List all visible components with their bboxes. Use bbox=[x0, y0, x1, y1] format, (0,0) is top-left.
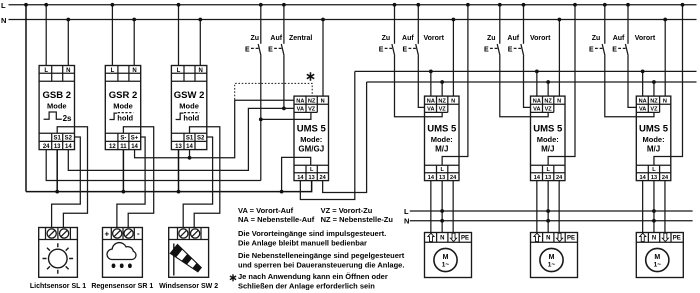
switch group U4 labels bbox=[592, 35, 656, 42]
GSB 2 sensor terminal labels bbox=[54, 136, 73, 142]
UMS 5 U1 mode label bbox=[298, 135, 324, 154]
svg-text:L: L bbox=[44, 68, 48, 74]
svg-text:M/J: M/J bbox=[435, 144, 448, 153]
junction N motor line / motor N U3 bbox=[546, 219, 550, 223]
wire GSR2 pin11 drop bbox=[122, 150, 124, 192]
wire GSB2 pin24 to Zu Zentral line bbox=[46, 150, 261, 181]
shutter control unit UMS 5 U3 outline bbox=[531, 96, 566, 181]
svg-text:Mode:: Mode: bbox=[431, 135, 453, 144]
UMS 5 U3 pin labels 14 13 24 bbox=[534, 175, 563, 181]
svg-text:S1: S1 bbox=[54, 136, 62, 142]
note asterisk bbox=[230, 272, 388, 290]
wire NA bus drop to U4 bbox=[642, 71, 644, 96]
svg-text:14: 14 bbox=[640, 175, 647, 181]
svg-text:14: 14 bbox=[131, 144, 138, 150]
svg-text:M: M bbox=[443, 254, 449, 261]
svg-text:N: N bbox=[440, 236, 444, 242]
svg-text:E: E bbox=[245, 46, 250, 53]
junction NA bus / U4 bbox=[641, 70, 645, 74]
motor M2 terminal N label bbox=[546, 236, 550, 242]
svg-text:hold: hold bbox=[183, 113, 199, 122]
sensor relay GSW 2 outline bbox=[171, 66, 206, 150]
wind sensor SW2 screw terminals bbox=[179, 229, 200, 238]
svg-text:1~: 1~ bbox=[548, 262, 556, 269]
wire L motor line bbox=[410, 210, 693, 212]
svg-text:N: N bbox=[652, 236, 656, 242]
svg-text:NA: NA bbox=[427, 98, 435, 104]
svg-text:NA: NA bbox=[533, 98, 541, 104]
junction NA bus / U3 bbox=[535, 70, 539, 74]
svg-text:Auf: Auf bbox=[270, 35, 282, 42]
junction N bus / N feed U2 bbox=[452, 18, 456, 22]
svg-text:Windsensor SW 2: Windsensor SW 2 bbox=[159, 283, 218, 290]
wire Zu U4 to VZ input bbox=[605, 56, 654, 117]
junction NA bus / U2 bbox=[429, 70, 433, 74]
svg-text:L: L bbox=[652, 167, 656, 173]
wire light sensor to GSB2 S1 bbox=[57, 127, 87, 228]
wire NZ bus drop to U4 bbox=[653, 82, 655, 96]
svg-text:Mode:: Mode: bbox=[643, 135, 665, 144]
junction L bus / GSW2 L bbox=[177, 3, 181, 7]
svg-text:24: 24 bbox=[556, 175, 563, 181]
GSW 2 terminal labels L N bbox=[177, 68, 203, 74]
wire L bus bbox=[9, 4, 697, 6]
svg-text:Mode:: Mode: bbox=[300, 135, 322, 144]
UMS 5 U4 pin labels 14 13 24 bbox=[640, 175, 669, 181]
svg-text:GM/GJ: GM/GJ bbox=[298, 144, 324, 153]
svg-text:14: 14 bbox=[428, 175, 435, 181]
GSW 2 Mode label bbox=[179, 102, 199, 111]
wind sensor SW2 windsock icon bbox=[170, 244, 203, 276]
svg-text:Auf: Auf bbox=[613, 35, 625, 42]
sensor relay GSR 2 outline bbox=[105, 66, 140, 150]
wire Zu Zentral upper bbox=[260, 5, 262, 44]
UMS 5 U1 pin labels NA NZ N bbox=[296, 98, 324, 104]
junction L common / GSR2 pin11 bbox=[122, 190, 126, 194]
svg-text:11: 11 bbox=[120, 144, 127, 150]
motor M1 symbol M 1~ bbox=[434, 248, 457, 271]
shutter control unit UMS 5 U1 outline bbox=[294, 96, 329, 181]
svg-text:NZ: NZ bbox=[308, 98, 316, 104]
wire Auf U2 upper bbox=[417, 5, 419, 44]
wire NA bus drop to U3 bbox=[536, 71, 538, 96]
junction L bus / left riser bbox=[24, 3, 28, 7]
UMS 5 U2 mode label bbox=[431, 135, 453, 154]
junction NZ bus / U3 bbox=[546, 80, 550, 84]
wire Zu U2 to VZ input bbox=[395, 56, 443, 117]
svg-text:14: 14 bbox=[186, 144, 193, 150]
svg-text:UMS 5: UMS 5 bbox=[297, 124, 327, 135]
motor M2 box bbox=[531, 233, 578, 278]
junction NA line / GSW2 pin14 bbox=[188, 156, 192, 160]
svg-text:S-: S- bbox=[120, 136, 126, 142]
junction N motor line / motor N U4 bbox=[652, 219, 656, 223]
wire GSB2 N supply bbox=[67, 20, 69, 66]
svg-text:N: N bbox=[663, 98, 667, 104]
wire N feed Zentral bbox=[322, 20, 324, 97]
wire N bus bbox=[9, 19, 697, 21]
rain sensor SR1 label bbox=[91, 283, 153, 290]
motor M1 terminal PE label bbox=[461, 236, 469, 242]
wire Zu U3 upper bbox=[499, 5, 501, 44]
net N motor line label bbox=[404, 217, 409, 226]
svg-text:13: 13 bbox=[545, 175, 551, 181]
GSW 2 mode icon hold bbox=[176, 113, 200, 123]
svg-text:NZ: NZ bbox=[438, 98, 446, 104]
svg-text:24: 24 bbox=[320, 175, 327, 181]
wire Auf U4 upper bbox=[627, 5, 629, 44]
light sensor SL1 label bbox=[30, 283, 86, 290]
pushbutton Auf Zentral contact bbox=[268, 44, 284, 56]
wire GSW2 pin14 drop to NA line bbox=[189, 150, 191, 158]
wire NA bus bbox=[355, 70, 697, 72]
motor M1 terminal N label bbox=[440, 236, 444, 242]
wire U1 pin14 to NA bus riser bbox=[300, 71, 354, 199]
wire N feed U4 bbox=[664, 20, 666, 97]
wire NZ bus bbox=[367, 81, 697, 83]
UMS 5 U1 pin labels VA VZ bbox=[297, 107, 316, 113]
svg-text:Je nach Anwendung kann ein Öff: Je nach Anwendung kann ein Öffnen oder bbox=[238, 272, 388, 281]
UMS 5 U4 pin label L bbox=[652, 167, 656, 173]
wire rain sensor to GSR2 S+ bbox=[117, 137, 145, 228]
svg-text:VA: VA bbox=[297, 107, 304, 113]
svg-text:N: N bbox=[132, 68, 136, 74]
UMS 5 U4 name label bbox=[639, 124, 669, 135]
junction L bus / Auf U4 bbox=[626, 3, 630, 7]
svg-text:Zu: Zu bbox=[592, 35, 601, 42]
svg-text:GSR 2: GSR 2 bbox=[109, 90, 138, 101]
wire Auf U4 to VA input bbox=[628, 56, 636, 108]
wire Zu Zentral lower to VZ UMS5 U1 and GSB2-24 line bbox=[261, 56, 311, 181]
wire NZ bus drop to U3 bbox=[547, 82, 549, 96]
svg-text:VA: VA bbox=[427, 107, 434, 113]
svg-text:VA: VA bbox=[639, 107, 646, 113]
svg-text:24: 24 bbox=[662, 175, 669, 181]
UMS 5 U4 pin labels NA NZ N bbox=[639, 98, 667, 104]
svg-text:UMS 5: UMS 5 bbox=[427, 124, 457, 135]
motor M3 terminal PE label bbox=[673, 236, 681, 242]
svg-text:12: 12 bbox=[109, 144, 116, 150]
svg-text:Die Vororteingänge sind impuls: Die Vororteingänge sind impulsgesteuert. bbox=[238, 229, 386, 238]
junction L common / GSW2 pin13 bbox=[177, 190, 181, 194]
junction N bus / N feed U3 bbox=[558, 18, 562, 22]
svg-text:13: 13 bbox=[175, 144, 182, 150]
net L motor line label bbox=[404, 207, 409, 216]
svg-text:VA: VA bbox=[533, 107, 540, 113]
wire GSW2 N supply bbox=[199, 20, 201, 66]
svg-text:E: E bbox=[612, 46, 617, 53]
junction L bus / Zu U4 bbox=[603, 3, 607, 7]
svg-text:E: E bbox=[484, 46, 489, 53]
motor M3 terminal N label bbox=[652, 236, 656, 242]
svg-text:S+: S+ bbox=[131, 136, 139, 142]
svg-text:UMS 5: UMS 5 bbox=[533, 124, 563, 135]
wire U1 pin24 to NZ bus riser bbox=[323, 82, 367, 193]
wire N motor line bbox=[410, 220, 693, 222]
svg-text:Vorort: Vorort bbox=[530, 35, 551, 42]
svg-text:VZ: VZ bbox=[308, 107, 316, 113]
wire U3 pin13 and motor N to L and N lines bbox=[547, 181, 549, 233]
UMS 5 U3 name label bbox=[533, 124, 563, 135]
svg-text:E: E bbox=[508, 46, 513, 53]
pushbutton Zu U4 contact bbox=[589, 44, 605, 56]
svg-text:NZ: NZ bbox=[544, 98, 552, 104]
pushbutton Zu Zentral contact bbox=[245, 44, 261, 56]
rain sensor SR1 screw terminals bbox=[113, 229, 134, 238]
wire rain sensor to GSR2 S- bbox=[123, 127, 153, 228]
GSR 2 Mode label bbox=[113, 102, 133, 111]
legend NA NZ definitions bbox=[238, 215, 393, 224]
svg-text:Schließen der Anlage erforderl: Schließen der Anlage erforderlich sein bbox=[238, 281, 375, 290]
note Vorort inputs bbox=[238, 229, 386, 247]
junction Auf Zentral / VA line bbox=[282, 107, 286, 111]
motor M2 terminal down arrow bbox=[556, 233, 562, 241]
svg-text:14: 14 bbox=[534, 175, 541, 181]
svg-text:Auf: Auf bbox=[402, 35, 414, 42]
UMS 5 U1 pin label L bbox=[310, 167, 314, 173]
svg-text:M/J: M/J bbox=[647, 144, 660, 153]
GSW 2 bottom terminal labels bbox=[175, 144, 193, 150]
GSR 2 sensor terminal labels bbox=[120, 136, 138, 142]
UMS 5 U2 name label bbox=[427, 124, 457, 135]
svg-text:E: E bbox=[268, 46, 273, 53]
svg-text:E: E bbox=[403, 46, 408, 53]
rain sensor SR1 polarity labels bbox=[104, 229, 140, 238]
UMS 5 U2 pin label L bbox=[440, 167, 444, 173]
wire GSW2 L supply bbox=[178, 5, 180, 66]
svg-text:N: N bbox=[66, 68, 70, 74]
UMS 5 U4 pin labels VA VZ bbox=[639, 107, 658, 113]
wire L feed left riser to sensor common bbox=[25, 5, 27, 192]
svg-text:N: N bbox=[404, 217, 409, 226]
net N bus label bbox=[1, 16, 6, 25]
motor M3 terminal down arrow bbox=[662, 233, 668, 241]
optional link NA to NZ of U1 dotted bbox=[235, 83, 313, 99]
light sensor SL1 screw terminals bbox=[47, 229, 69, 238]
wire Auf Zentral upper bbox=[283, 5, 285, 44]
wire NA bus drop to U2 bbox=[430, 71, 432, 96]
GSR 2 name label bbox=[109, 90, 138, 101]
motor M2 terminal up arrow bbox=[534, 233, 540, 241]
switch group U3 labels bbox=[487, 35, 551, 42]
svg-text:UMS 5: UMS 5 bbox=[639, 124, 669, 135]
pushbutton Zu U3 contact bbox=[484, 44, 500, 56]
UMS 5 U1 name label bbox=[297, 124, 327, 135]
GSR 2 bottom terminal labels bbox=[109, 144, 138, 150]
junction L bus / Auf U2 bbox=[416, 3, 420, 7]
wind sensor SW2 label bbox=[159, 283, 218, 290]
wire Zu U2 upper bbox=[394, 5, 396, 44]
svg-text:VZ = Vorort-Zu: VZ = Vorort-Zu bbox=[321, 206, 373, 215]
svg-text:-: - bbox=[137, 229, 140, 238]
wire U2 pin14 to motor up terminal bbox=[430, 181, 432, 233]
wire U4 pin13 and motor N to L and N lines bbox=[653, 181, 655, 233]
svg-text:PE: PE bbox=[567, 236, 575, 242]
GSB 2 Mode label bbox=[47, 102, 67, 111]
svg-text:PE: PE bbox=[673, 236, 681, 242]
svg-text:2s: 2s bbox=[63, 114, 72, 123]
svg-text:Regensensor SR 1: Regensensor SR 1 bbox=[91, 283, 153, 290]
light sensor SL1 box bbox=[39, 228, 78, 278]
UMS 5 U1 pin labels 14 13 24 bbox=[297, 175, 326, 181]
GSR 2 terminal labels L N bbox=[111, 68, 137, 74]
rain sensor SR1 box bbox=[103, 228, 143, 278]
svg-text:14: 14 bbox=[297, 175, 304, 181]
junction N bus / GSB2 N bbox=[66, 18, 70, 22]
asterisk marker bbox=[307, 72, 314, 81]
svg-text:M/J: M/J bbox=[541, 144, 554, 153]
svg-text:M: M bbox=[549, 254, 555, 261]
svg-text:Vorort: Vorort bbox=[424, 35, 445, 42]
wire GSW2 pin13 drop bbox=[178, 150, 180, 192]
svg-text:S2: S2 bbox=[65, 136, 73, 142]
junction L bus / U4 L riser bbox=[681, 3, 685, 7]
wire L common riser to U1 L terminal bbox=[282, 157, 311, 191]
svg-text:Zu: Zu bbox=[382, 35, 391, 42]
junction L common / riser bbox=[280, 190, 284, 194]
svg-text:24: 24 bbox=[43, 144, 50, 150]
wire Zu U4 upper bbox=[604, 5, 606, 44]
junction L bus / GSB2 L bbox=[44, 3, 48, 7]
motor M1 terminal up arrow bbox=[428, 233, 434, 241]
junction L bus / Zu Zentral bbox=[259, 3, 263, 7]
wire U4 pin14 to motor up terminal bbox=[642, 181, 644, 233]
junction L motor line / U4 pin13 bbox=[652, 209, 656, 213]
wire Auf U3 to VA input bbox=[524, 56, 531, 108]
svg-text:GSW 2: GSW 2 bbox=[174, 90, 205, 101]
svg-text:N: N bbox=[198, 68, 202, 74]
wire wind sensor to GSW2 S1 bbox=[190, 127, 220, 228]
note Nebenstellen inputs bbox=[238, 251, 405, 269]
pushbutton Auf U4 contact bbox=[612, 44, 628, 56]
motor M1 terminal down arrow bbox=[450, 233, 456, 241]
svg-text:E: E bbox=[379, 46, 384, 53]
junction L motor line / U2 pin13 bbox=[440, 209, 444, 213]
svg-text:L: L bbox=[177, 68, 181, 74]
junction L bus / GSR2 L bbox=[111, 3, 115, 7]
svg-text:L: L bbox=[440, 167, 444, 173]
svg-text:NA = Nebenstelle-Auf: NA = Nebenstelle-Auf bbox=[238, 215, 315, 224]
wire NZ bus drop to U2 bbox=[441, 82, 443, 96]
wire Auf Zentral lower to VA line bbox=[283, 56, 285, 109]
junction L bus / Auf U3 bbox=[522, 3, 526, 7]
svg-text:N: N bbox=[557, 98, 561, 104]
switch group Zentral labels bbox=[250, 35, 312, 42]
svg-text:Die Anlage bleibt manuell bedi: Die Anlage bleibt manuell bedienbar bbox=[238, 239, 367, 248]
GSB 2 terminal labels L N bbox=[44, 68, 70, 74]
wire Zu U3 to VZ input bbox=[500, 56, 548, 117]
svg-text:L: L bbox=[111, 68, 115, 74]
svg-text:Die Nebenstelleneingänge sind: Die Nebenstelleneingänge sind pegelgeste… bbox=[238, 251, 405, 260]
pushbutton Zu U2 contact bbox=[379, 44, 395, 56]
motor M3 box bbox=[636, 233, 683, 278]
wire GSR2 N supply bbox=[133, 20, 135, 66]
junction L bus / U2 L riser bbox=[466, 3, 470, 7]
UMS 5 U2 pin labels VA VZ bbox=[427, 107, 446, 113]
pushbutton Auf U3 contact bbox=[508, 44, 524, 56]
svg-text:VZ: VZ bbox=[545, 107, 553, 113]
svg-text:Lichtsensor SL 1: Lichtsensor SL 1 bbox=[30, 283, 86, 290]
wire light sensor to GSB2 S2 bbox=[52, 137, 81, 228]
svg-text:und sperren bei Daueransteueru: und sperren bei Daueransteuerung die Anl… bbox=[238, 260, 404, 269]
shutter control unit UMS 5 U2 outline bbox=[425, 96, 460, 181]
junction L bus / U3 L riser bbox=[573, 3, 577, 7]
junction L bus / Zu U3 bbox=[498, 3, 502, 7]
wind sensor SW2 box bbox=[169, 228, 209, 278]
motor M3 terminal up arrow bbox=[640, 233, 646, 241]
svg-text:L: L bbox=[404, 207, 409, 216]
junction Zu Zentral / VZ branch bbox=[259, 118, 263, 122]
svg-text:1~: 1~ bbox=[442, 262, 450, 269]
svg-text:L: L bbox=[1, 1, 6, 10]
svg-text:Mode: Mode bbox=[47, 102, 67, 111]
svg-text:13: 13 bbox=[651, 175, 657, 181]
net L bus label bbox=[1, 1, 6, 10]
GSB 2 mode icon pulse 2s bbox=[44, 112, 72, 123]
UMS 5 U3 pin label L bbox=[546, 167, 550, 173]
junction N motor line / motor N U2 bbox=[440, 219, 444, 223]
UMS 5 U4 mode label bbox=[643, 135, 665, 154]
wire GSB2 pin13 drop bbox=[56, 150, 58, 192]
svg-text:VA = Vorort-Auf: VA = Vorort-Auf bbox=[238, 206, 294, 215]
svg-text:Mode:: Mode: bbox=[537, 135, 559, 144]
svg-text:S2: S2 bbox=[197, 136, 205, 142]
svg-text:N: N bbox=[546, 236, 550, 242]
junction N bus / GSW2 N bbox=[198, 18, 202, 22]
UMS 5 U3 pin labels NA NZ N bbox=[533, 98, 561, 104]
svg-text:Zentral: Zentral bbox=[289, 35, 312, 42]
wire U2 pin13 and motor N to L and N lines bbox=[441, 181, 443, 233]
svg-text:Zu: Zu bbox=[487, 35, 496, 42]
GSW 2 name label bbox=[174, 90, 205, 101]
GSB 2 name label bbox=[43, 90, 72, 101]
sensor relay GSB 2 outline bbox=[39, 66, 74, 150]
GSW 2 sensor terminal labels bbox=[186, 136, 205, 142]
junction N bus / N feed U4 bbox=[663, 18, 667, 22]
svg-text:24: 24 bbox=[450, 175, 457, 181]
svg-text:N: N bbox=[321, 98, 325, 104]
svg-text:13: 13 bbox=[309, 175, 315, 181]
svg-text:GSB 2: GSB 2 bbox=[43, 90, 72, 101]
svg-text:14: 14 bbox=[65, 144, 72, 150]
svg-text:1~: 1~ bbox=[654, 262, 662, 269]
svg-text:N: N bbox=[451, 98, 455, 104]
svg-text:PE: PE bbox=[461, 236, 469, 242]
svg-text:N: N bbox=[1, 16, 6, 25]
junction NZ bus / U4 bbox=[652, 80, 656, 84]
light sensor SL1 sun icon bbox=[43, 243, 74, 274]
svg-text:Mode: Mode bbox=[113, 102, 133, 111]
UMS 5 U2 pin labels 14 13 24 bbox=[428, 175, 457, 181]
svg-text:13: 13 bbox=[54, 144, 61, 150]
svg-text:NA: NA bbox=[296, 98, 304, 104]
svg-text:Auf: Auf bbox=[507, 35, 519, 42]
svg-text:Zu: Zu bbox=[250, 35, 259, 42]
wire L bus riser to U2 L terminal bbox=[442, 5, 468, 165]
junction L bus / Zu U2 bbox=[393, 3, 397, 7]
motor M2 terminal PE label bbox=[567, 236, 575, 242]
wire GSR2 pin14 NA line to U1 bbox=[135, 100, 294, 158]
wire N feed U2 bbox=[452, 20, 454, 97]
svg-text:13: 13 bbox=[439, 175, 445, 181]
junction N bus / N feed Zentral bbox=[321, 18, 325, 22]
UMS 5 U3 mode label bbox=[537, 135, 559, 154]
wire Auf U2 to VA input bbox=[418, 56, 424, 108]
wire Auf U3 upper bbox=[523, 5, 525, 44]
wire wind sensor to GSW2 S2 bbox=[183, 137, 212, 228]
svg-text:Mode: Mode bbox=[179, 102, 199, 111]
svg-text:E: E bbox=[589, 46, 594, 53]
